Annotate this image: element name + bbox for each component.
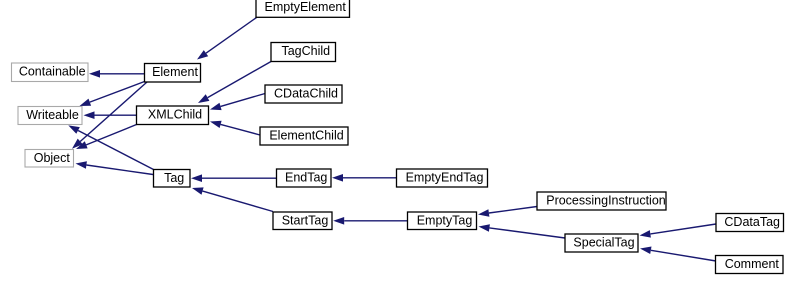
svg-text:Object: Object	[34, 151, 71, 165]
svg-text:CDataChild: CDataChild	[274, 86, 338, 100]
svg-text:ProcessingInstruction: ProcessingInstruction	[546, 193, 666, 207]
class box ProcessingInstruction	[537, 192, 666, 210]
class box Tag	[154, 170, 191, 188]
class box EmptyElement	[256, 0, 350, 17]
svg-text:Element: Element	[152, 65, 198, 79]
inheritance arrow StartTag to Tag	[192, 187, 273, 211]
inheritance arrow Element to Writeable	[80, 82, 145, 107]
svg-text:ElementChild: ElementChild	[269, 128, 343, 142]
inheritance arrow EmptyElement to Element	[197, 18, 257, 60]
svg-text:Comment: Comment	[725, 257, 780, 271]
svg-text:Writeable: Writeable	[26, 108, 79, 122]
inheritance arrow EmptyEndTag to EndTag	[332, 174, 397, 182]
inheritance arrow Element to Object	[72, 82, 147, 149]
svg-text:XMLChild: XMLChild	[148, 107, 202, 121]
svg-text:StartTag: StartTag	[282, 213, 329, 227]
svg-text:SpecialTag: SpecialTag	[573, 235, 634, 249]
svg-text:EmptyElement: EmptyElement	[265, 0, 347, 14]
svg-text:EmptyTag: EmptyTag	[417, 213, 473, 227]
svg-text:Containable: Containable	[19, 64, 86, 78]
class box Object	[25, 150, 74, 168]
class box Containable	[12, 63, 89, 82]
svg-text:EndTag: EndTag	[285, 170, 327, 184]
class box TagChild	[271, 43, 336, 62]
class box CDataChild	[265, 85, 342, 103]
svg-text:EmptyEndTag: EmptyEndTag	[406, 170, 484, 184]
class box Element	[145, 64, 201, 83]
class box CDataTag	[716, 214, 784, 232]
class box Writeable	[18, 107, 82, 125]
class box SpecialTag	[565, 234, 638, 252]
class box EmptyEndTag	[397, 169, 488, 187]
inheritance arrow XMLChild to Object	[76, 125, 137, 150]
inheritance arrow EmptyTag to StartTag	[333, 217, 407, 225]
inheritance arrow Tag to Writeable	[68, 125, 153, 169]
class box StartTag	[273, 212, 332, 230]
svg-text:TagChild: TagChild	[281, 44, 330, 58]
inheritance arrow CDataChild to XMLChild	[210, 94, 265, 111]
inheritance arrow XMLChild to Writeable	[84, 111, 137, 119]
inheritance arrow SpecialTag to EmptyTag	[479, 224, 566, 238]
inheritance arrow Element to Containable	[89, 70, 145, 78]
class box Comment	[716, 256, 784, 274]
inheritance arrow Comment to SpecialTag	[640, 247, 716, 262]
inheritance arrow EndTag to Tag	[191, 174, 277, 182]
svg-text:CDataTag: CDataTag	[724, 215, 780, 229]
inheritance arrow TagChild to XMLChild	[198, 62, 271, 104]
inheritance arrow Tag to Object	[76, 161, 154, 174]
class box EmptyTag	[408, 212, 477, 230]
class box ElementChild	[260, 127, 348, 145]
svg-text:Tag: Tag	[164, 171, 184, 185]
inheritance arrow ElementChild to XMLChild	[210, 121, 260, 135]
class box EndTag	[277, 169, 332, 187]
inheritance arrow ProcessingInstruction to EmptyTag	[478, 207, 537, 217]
class box XMLChild	[137, 106, 209, 125]
inheritance arrow CDataTag to SpecialTag	[640, 224, 717, 238]
